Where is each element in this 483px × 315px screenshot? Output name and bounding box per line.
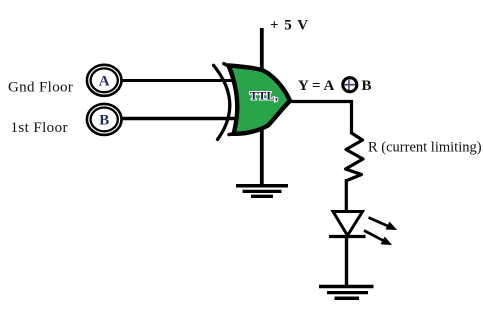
svg-text:A: A (99, 73, 110, 89)
label "TTL" on gate (250, 89, 279, 103)
svg-text:R (current limiting): R (current limiting) (368, 140, 482, 156)
+5V supply wire (260, 28, 264, 71)
label "+ 5 V" power supply (270, 18, 309, 34)
label "1st Floor" (11, 120, 68, 136)
svg-text:1st Floor: 1st Floor (11, 120, 68, 136)
LED D1 (diode triangle and cathode bar) (329, 212, 366, 237)
svg-text:+ 5 V: + 5 V (270, 18, 309, 34)
wire resistor to LED (345, 179, 348, 224)
wire input A to XOR gate (121, 79, 238, 82)
input terminal A (87, 65, 122, 96)
output wire Y (289, 100, 353, 103)
svg-text:TTL,: TTL, (250, 89, 279, 103)
svg-text:Gnd Floor: Gnd Floor (8, 80, 73, 96)
svg-text:B: B (99, 112, 109, 128)
label "Gnd Floor" (8, 80, 73, 96)
XOR operator symbol in label (343, 78, 357, 92)
node label "B" (362, 78, 372, 94)
XOR gate U1 body (TTL) (224, 64, 290, 135)
wire XOR gate to ground (260, 128, 264, 186)
XOR gate U1 input curve (214, 65, 230, 139)
wire input B to XOR gate (121, 117, 237, 120)
ground symbol (LED) (319, 287, 374, 299)
node label "Y = A" (298, 78, 334, 94)
resistor R (zigzag) (346, 133, 364, 180)
wire output node to resistor (350, 100, 353, 134)
svg-text:B: B (362, 78, 372, 94)
label "R (current limiting)" (368, 140, 482, 156)
svg-text:Y = A: Y = A (298, 78, 334, 94)
LED light emission arrows (364, 218, 397, 246)
input terminal B (87, 104, 122, 135)
ground symbol (gate) (236, 186, 288, 197)
wire LED to ground (345, 236, 348, 287)
